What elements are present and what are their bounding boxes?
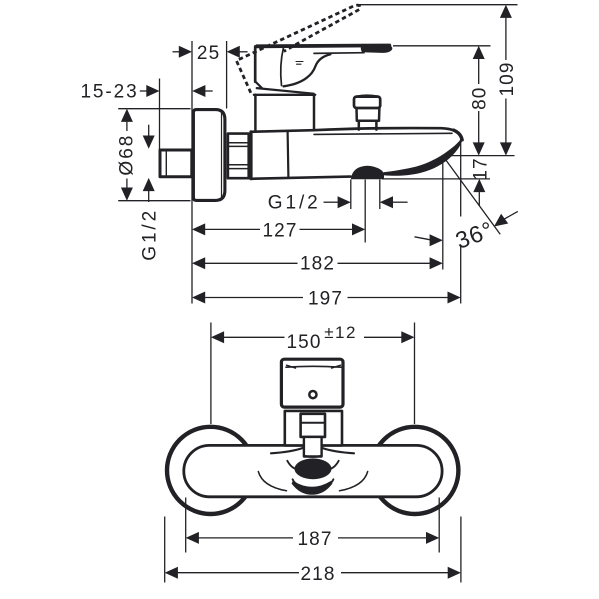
svg-text:Ø68: Ø68 (117, 134, 138, 176)
svg-text:15-23: 15-23 (80, 82, 138, 103)
svg-text:109: 109 (497, 61, 518, 96)
svg-text:80: 80 (470, 87, 491, 110)
svg-text:G1/2: G1/2 (140, 208, 161, 261)
svg-text:G1/2: G1/2 (268, 193, 321, 214)
svg-text:127: 127 (262, 220, 297, 241)
svg-text:218: 218 (300, 564, 335, 585)
svg-text:197: 197 (308, 288, 343, 309)
svg-text:182: 182 (300, 253, 335, 274)
svg-text:187: 187 (297, 529, 332, 550)
svg-text:±12: ±12 (324, 323, 357, 342)
svg-text:25: 25 (197, 43, 220, 64)
svg-text:17: 17 (470, 157, 491, 180)
svg-text:150: 150 (286, 332, 321, 353)
